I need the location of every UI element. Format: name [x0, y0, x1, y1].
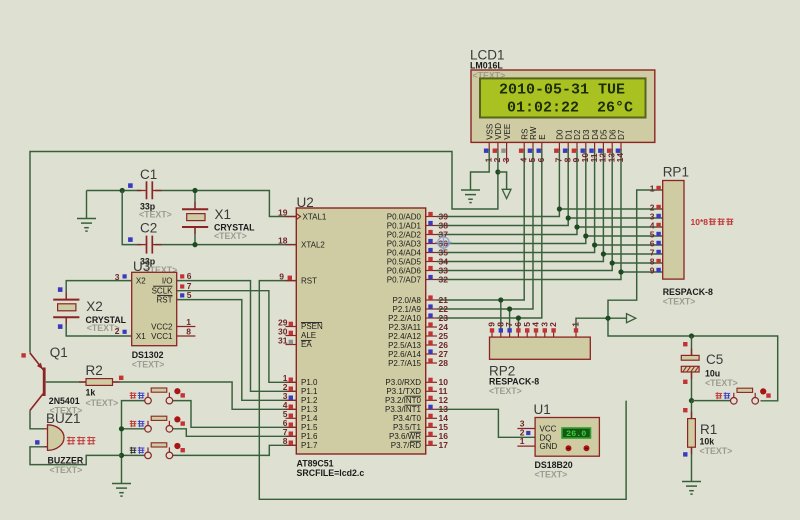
- svg-text:P3.7/RD: P3.7/RD: [391, 441, 421, 450]
- svg-text:<TEXT>: <TEXT>: [86, 398, 119, 408]
- pin U2 1 P1.0: [286, 381, 297, 383]
- svg-text:P1.7: P1.7: [301, 441, 318, 450]
- pin RP2 5: [526, 331, 528, 337]
- wire C1 left to ground branch: [87, 190, 142, 192]
- svg-text:U3: U3: [133, 259, 150, 274]
- wire U3 I/O to U2 P1.1: [177, 281, 297, 392]
- svg-text:D0: D0: [556, 129, 565, 140]
- svg-text:SRCFILE=lcd2.c: SRCFILE=lcd2.c: [297, 468, 365, 478]
- svg-text:P2.7/A15: P2.7/A15: [388, 359, 421, 368]
- wire button left rail to ground: [122, 401, 145, 484]
- wire D5 net: LCD pin12 / U2 P0.5 / RP1 pin7: [437, 149, 663, 262]
- pin LCD 14: [620, 142, 622, 150]
- svg-text:P2.0/A8: P2.0/A8: [393, 296, 422, 305]
- pin LCD 13: [611, 142, 613, 150]
- svg-text:<TEXT>: <TEXT>: [700, 446, 733, 456]
- wire VCC branch to power arrow: [608, 317, 627, 319]
- svg-text:I/O: I/O: [162, 277, 173, 286]
- svg-text:RW: RW: [529, 126, 538, 140]
- capacitor C5 electrolytic: [691, 349, 693, 356]
- node RP2 pin7 junction: [507, 306, 512, 311]
- pin U2 22 P2.1: [426, 308, 437, 310]
- state square U3 pin5: [180, 293, 184, 297]
- svg-text:<TEXT>: <TEXT>: [663, 297, 696, 307]
- transistor Q1 2N5401: [30, 353, 44, 411]
- wire VCC net: RP1 pin1, RP2 pin1, C5, reset button, power arrow: [608, 190, 778, 401]
- svg-text:<TEXT>: <TEXT>: [489, 386, 522, 396]
- wire U3 RST to U2 P1.2: [177, 300, 297, 401]
- pin U2 28 P2.7: [426, 362, 437, 364]
- svg-text:P3.2/INT0: P3.2/INT0: [385, 396, 422, 405]
- wire D2 net: LCD pin9 / U2 P0.2 / RP1 pin4: [437, 149, 663, 235]
- svg-text:P2.3/A11: P2.3/A11: [389, 323, 422, 332]
- capacitor C2: [137, 236, 162, 254]
- pin U2 7 P1.6: [286, 435, 297, 437]
- pin LCD 4: [523, 142, 525, 150]
- svg-text:1k: 1k: [86, 387, 96, 397]
- node RP2 pin8 junction: [498, 297, 503, 302]
- pin U2 25 P2.4: [426, 335, 437, 337]
- wire U3 X2 pin to crystal X2 top: [66, 281, 132, 300]
- svg-text:P0.2/AD2: P0.2/AD2: [387, 230, 422, 239]
- power terminal arrow right (VCC): [627, 314, 636, 323]
- pin U2 3 P1.2: [286, 399, 297, 401]
- wire C5 stems: [691, 336, 693, 401]
- pin U1 1 GND: [517, 445, 535, 447]
- pin RP2 9: [491, 331, 493, 337]
- wire XTAL1 net: C1 right plate to U2 XTAL1: [155, 191, 296, 217]
- svg-text:VDD: VDD: [494, 123, 503, 140]
- svg-text:P0.5/AD5: P0.5/AD5: [387, 257, 422, 266]
- pin LCD 2: [497, 142, 499, 150]
- pin U2 27 P2.6: [426, 353, 437, 355]
- svg-text:C2: C2: [140, 221, 157, 236]
- pin U2 10 P3.0: [426, 381, 437, 383]
- wire U3 X1 pin to crystal X2 bottom: [66, 317, 132, 336]
- svg-text:<TEXT>: <TEXT>: [705, 378, 738, 388]
- svg-text:P1.1: P1.1: [301, 387, 318, 396]
- state square X2 top: [58, 287, 63, 292]
- wire VEE branch: junction to terminal arrow: [498, 172, 507, 189]
- wire RP2 pin8 stub: [500, 300, 502, 329]
- svg-text:28: 28: [439, 358, 449, 368]
- svg-text:P2.4/A12: P2.4/A12: [388, 332, 421, 341]
- push button SW3 (down): [130, 443, 185, 459]
- node D1 junction: [566, 215, 571, 220]
- state square C2: [128, 237, 133, 242]
- svg-text:RST: RST: [301, 276, 317, 285]
- node D7 junction: [618, 269, 623, 274]
- svg-text:EA: EA: [301, 340, 312, 349]
- wire button1 to U2 P1.5: [173, 401, 297, 428]
- pin LCD 12: [602, 142, 604, 150]
- ground (LCD VSS): [461, 190, 480, 203]
- state square U3 pin6: [180, 274, 184, 278]
- pin U2 6 P1.5: [286, 426, 297, 428]
- svg-text:6: 6: [536, 157, 546, 162]
- pin U2 33 P0.6: [426, 270, 437, 272]
- state square X2 bottom: [58, 324, 63, 329]
- lcd LCD1 LM016L body: [471, 70, 655, 142]
- svg-text:R2: R2: [86, 363, 103, 378]
- state square R1 bottom: [683, 452, 687, 456]
- svg-text:14: 14: [615, 153, 625, 163]
- svg-text:P2.2/A10: P2.2/A10: [388, 314, 421, 323]
- pin LCD 5: [532, 142, 534, 150]
- svg-text:C1: C1: [140, 167, 157, 182]
- pin U2 26 P2.5: [426, 344, 437, 346]
- svg-text:9: 9: [279, 271, 284, 281]
- pin U2 35 P0.4: [426, 252, 437, 254]
- svg-text:P1.6: P1.6: [301, 432, 318, 441]
- svg-text:P1.0: P1.0: [301, 378, 318, 387]
- wire D4 net: LCD pin11 / U2 P0.4 / RP1 pin6: [437, 149, 663, 253]
- pin U2 30 ALE: [286, 335, 297, 337]
- pin LCD 6: [541, 142, 543, 150]
- pin U2 31 EA: [286, 344, 297, 346]
- pin U2 2 P1.1: [286, 390, 297, 392]
- wire reset node to reset button left: [692, 400, 731, 402]
- wire LCD RS column to U2 P2.0 / RP2 pin8: [437, 149, 524, 300]
- indicator dot U1 right: [584, 445, 590, 451]
- pin RP2 2: [553, 331, 555, 337]
- resistor R2: [79, 381, 86, 383]
- wire C2 left branch: [122, 191, 141, 245]
- svg-text:XTAL1: XTAL1: [303, 212, 327, 221]
- pin U2 21 P2.0: [426, 299, 437, 301]
- chip U3 DS1302 body: [132, 272, 177, 345]
- svg-text:C5: C5: [706, 352, 723, 367]
- svg-text:BUZ1: BUZ1: [46, 411, 81, 426]
- svg-text:LM016L: LM016L: [470, 61, 503, 71]
- pin U2 9 RST: [286, 280, 297, 282]
- svg-text:<TEXT>: <TEXT>: [139, 210, 172, 220]
- wire D6 net: LCD pin13 / U2 P0.6 / RP1 pin8: [437, 149, 663, 271]
- pin LCD 9: [576, 142, 578, 150]
- svg-text:10u: 10u: [705, 368, 720, 378]
- node D5 junction: [601, 251, 606, 256]
- svg-text:19: 19: [278, 207, 288, 217]
- state square R2 right: [119, 376, 123, 380]
- svg-text:17: 17: [439, 440, 449, 450]
- node RP2 pin6 junction: [516, 315, 521, 320]
- wire button3 row to U2 P1.7: [173, 445, 297, 455]
- svg-text:1: 1: [186, 317, 191, 327]
- pin U2 19 XTAL1: [286, 216, 297, 218]
- pin U2 32 P0.7: [426, 279, 437, 281]
- capacitor C1: [137, 181, 162, 199]
- svg-text:P3.5/T1: P3.5/T1: [393, 423, 422, 432]
- wire XTAL2 net: C2 right plate to U2 XTAL2: [155, 244, 296, 246]
- svg-text:31: 31: [278, 335, 288, 345]
- svg-text:X1: X1: [136, 332, 146, 341]
- wire X1 crystal stems: [194, 191, 196, 245]
- pin U2 18 XTAL2: [286, 244, 297, 246]
- svg-text:Q1: Q1: [50, 345, 68, 360]
- state square C1: [128, 183, 133, 188]
- svg-text:R1: R1: [700, 422, 717, 437]
- svg-text:<TEXT>: <TEXT>: [535, 470, 568, 480]
- push button SW1 (set): [130, 388, 185, 404]
- pin U2 4 P1.3: [286, 408, 297, 410]
- svg-text:VSS: VSS: [485, 124, 494, 140]
- svg-text:VCC2: VCC2: [151, 323, 173, 332]
- pin RP2 7: [509, 331, 511, 337]
- lcd screen: [480, 78, 646, 117]
- svg-text:8: 8: [283, 436, 288, 446]
- clock chevron XTAL1: [296, 213, 300, 219]
- svg-text:AT89C51: AT89C51: [297, 459, 334, 469]
- svg-text:5: 5: [187, 290, 192, 300]
- wire R1 stems and ground: [691, 401, 693, 482]
- wire D1 net: LCD pin8 / U2 P0.1 / RP1 pin3: [437, 149, 663, 226]
- buzzer BUZ1: [48, 425, 65, 451]
- pin stub U3 VCC1 (8): [177, 335, 196, 337]
- svg-text:26.0: 26.0: [566, 429, 586, 439]
- state square U3 pin7: [180, 284, 184, 288]
- pin U2 13 P3.3: [426, 408, 437, 410]
- svg-text:U1: U1: [534, 402, 551, 417]
- pin LCD 8: [567, 142, 569, 150]
- node C1/C2 ground junction: [120, 188, 125, 193]
- svg-text:ALE: ALE: [301, 331, 316, 340]
- svg-text:P3.1/TXD: P3.1/TXD: [386, 387, 421, 396]
- pin U2 14 P3.4: [426, 417, 437, 419]
- wire button2 left stub: [122, 428, 145, 430]
- wire VSS net: LCD pin1 to ground: [471, 149, 490, 190]
- power terminal arrow down (VEE): [502, 189, 511, 198]
- svg-text:RS: RS: [520, 129, 529, 140]
- chip U2 AT89C51 body: [296, 208, 425, 454]
- wire button2 to U2 P1.6: [173, 429, 297, 437]
- svg-text:P2.5/A13: P2.5/A13: [388, 341, 421, 350]
- svg-text:10*8: 10*8: [691, 217, 709, 227]
- node D3 junction: [583, 233, 588, 238]
- pin RP2 1: [575, 331, 577, 337]
- state square BUZ1: [35, 440, 39, 444]
- svg-text:GND: GND: [540, 442, 558, 451]
- svg-text:VCC1: VCC1: [151, 332, 173, 341]
- pin RP2 4: [535, 331, 537, 337]
- svg-text:D4: D4: [591, 129, 600, 140]
- cursor crosshair artifact: [435, 234, 452, 251]
- pin LCD 1: [488, 142, 490, 150]
- wire Q1 base to R2 left: [46, 381, 86, 383]
- svg-text:10k: 10k: [700, 436, 715, 446]
- pin U2 34 P0.5: [426, 261, 437, 263]
- svg-text:P0.1/AD1: P0.1/AD1: [387, 221, 422, 230]
- state square R1 top: [683, 408, 687, 412]
- pin U2 8 P1.7: [286, 444, 297, 446]
- pin LCD 3: [506, 142, 508, 163]
- svg-text:D6: D6: [608, 129, 617, 140]
- svg-text:PSEN: PSEN: [301, 322, 323, 331]
- svg-text:P1.5: P1.5: [301, 423, 318, 432]
- svg-text:P1.3: P1.3: [301, 405, 318, 414]
- node D0 junction: [557, 206, 562, 211]
- svg-text:P0.4/AD4: P0.4/AD4: [387, 248, 422, 257]
- respack RP1 body: [663, 181, 684, 280]
- svg-text:P0.7/AD7: P0.7/AD7: [387, 275, 422, 284]
- pin U2 36 P0.3: [426, 243, 437, 245]
- wire RP2 pin6 stub: [517, 318, 519, 329]
- svg-text:<TEXT>: <TEXT>: [214, 231, 247, 241]
- pin RP2 8: [500, 331, 502, 337]
- pin U2 17 P3.7: [426, 444, 437, 446]
- svg-text:XTAL2: XTAL2: [301, 240, 325, 249]
- pin RP2 3: [544, 331, 546, 337]
- ground (button rail): [112, 484, 131, 497]
- svg-text:RESPACK-8: RESPACK-8: [489, 377, 539, 387]
- crystal X1: [194, 202, 196, 209]
- svg-text:P3.6/WR: P3.6/WR: [389, 432, 421, 441]
- svg-text:8: 8: [186, 327, 191, 337]
- resistor R1: [691, 412, 693, 419]
- svg-text:RESPACK-8: RESPACK-8: [663, 287, 713, 297]
- wire D7 net: LCD pin14 / U2 P0.7 / RP1 pin9: [437, 149, 663, 280]
- svg-text:P2.6/A14: P2.6/A14: [388, 350, 421, 359]
- svg-text:E: E: [538, 134, 547, 139]
- pin U2 29 PSEN: [286, 326, 297, 328]
- wire D0 net: LCD pin7 / U2 P0.0 / RP1 pin2: [437, 149, 663, 217]
- wire LCD E column to U2 P2.2 / RP2 pin6: [437, 149, 542, 318]
- node X1 bottom junction: [192, 242, 197, 247]
- svg-text:D3: D3: [582, 129, 591, 140]
- pin U2 39 P0.0: [426, 216, 437, 218]
- svg-text:P1.4: P1.4: [301, 414, 318, 423]
- state square C5 top: [683, 342, 687, 346]
- svg-text:P2.1/A9: P2.1/A9: [393, 305, 422, 314]
- svg-text:2N5401: 2N5401: [49, 396, 80, 406]
- state square U3 pin2: [123, 330, 127, 334]
- svg-text:6: 6: [187, 271, 192, 281]
- push button SW2 (up): [130, 416, 185, 432]
- wire R2 right to U2 P1.3: [113, 382, 297, 409]
- svg-text:VEE: VEE: [503, 124, 512, 140]
- svg-text:U2: U2: [297, 195, 314, 210]
- svg-text:01:02:22 26°C: 01:02:22 26°C: [507, 100, 633, 117]
- chip U1 DS18B20 body: [535, 418, 599, 457]
- pin U2 37 P0.2: [426, 234, 437, 236]
- wire U2 RST net: pin9 left, down, across bottom, up to reset node: [259, 281, 626, 500]
- ground (crystal C1): [86, 191, 88, 219]
- svg-text:DQ: DQ: [540, 433, 552, 442]
- pin U2 11 P3.1: [426, 390, 437, 392]
- pin RP2 6: [517, 331, 519, 337]
- ground (R1): [682, 482, 701, 495]
- wire buzzer bottom pin loop to button rail: [30, 447, 122, 465]
- state square Q1 emitter: [21, 353, 25, 357]
- svg-text:VCC: VCC: [540, 424, 557, 433]
- pin LCD 7: [558, 142, 560, 150]
- node D6 junction: [610, 260, 615, 265]
- pin LCD 11: [594, 142, 596, 150]
- svg-text:X1: X1: [215, 207, 232, 222]
- push button reset: [716, 388, 771, 404]
- pin LCD 10: [585, 142, 587, 150]
- svg-text:<TEXT>: <TEXT>: [50, 465, 83, 475]
- svg-text:P3.3/INT1: P3.3/INT1: [385, 405, 422, 414]
- svg-text:P0.3/AD3: P0.3/AD3: [387, 239, 422, 248]
- pin U2 5 P1.4: [286, 417, 297, 419]
- node reset node junction: [689, 398, 694, 403]
- svg-text:P1.2: P1.2: [301, 396, 318, 405]
- node D4 junction: [592, 242, 597, 247]
- svg-text:X2: X2: [86, 299, 103, 314]
- svg-text:9: 9: [650, 266, 655, 276]
- indicator dot U1 left: [566, 445, 572, 451]
- wire RP2 pin7 stub: [509, 309, 511, 329]
- label buzzer chinese 蜂鸣器: [67, 437, 75, 445]
- temperature display 26.0: [562, 428, 591, 438]
- svg-text:D5: D5: [600, 129, 609, 140]
- wire buzzer top pin from Q1 collector: [30, 411, 44, 429]
- pin U2 38 P0.1: [426, 225, 437, 227]
- svg-text:1: 1: [571, 322, 581, 327]
- svg-text:32: 32: [439, 274, 449, 284]
- wire U2 P3.3 to U1 DQ: [437, 409, 535, 437]
- pin U2 15 P3.5: [426, 426, 437, 428]
- pin U2 23 P2.2: [426, 317, 437, 319]
- wire VDD net: LCD pin2 down, left to frame, down left edge to Q1 emitter: [30, 149, 498, 353]
- respack RP2 body: [490, 337, 591, 359]
- svg-text:P3.4/T0: P3.4/T0: [393, 414, 422, 423]
- node rail-button2 junction: [119, 426, 124, 431]
- svg-text:2: 2: [548, 322, 558, 327]
- state square U3 pin3: [123, 274, 127, 278]
- wire button3 left stub: [122, 454, 145, 456]
- svg-text:<TEXT>: <TEXT>: [132, 360, 165, 370]
- pin U2 12 P3.2: [426, 399, 437, 401]
- svg-text:P0.6/AD6: P0.6/AD6: [387, 266, 422, 275]
- wire U3 SCLK to U2 P1.0: [177, 291, 297, 383]
- svg-text:RP1: RP1: [663, 164, 689, 179]
- svg-text:P3.0/RXD: P3.0/RXD: [385, 378, 421, 387]
- pin U2 24 P2.3: [426, 326, 437, 328]
- svg-text:2010-05-31 TUE: 2010-05-31 TUE: [499, 82, 625, 99]
- pin U1 3 VCC: [517, 428, 535, 430]
- node VCC junction at arrow: [605, 316, 610, 321]
- svg-text:1: 1: [520, 436, 525, 446]
- svg-text:3: 3: [501, 157, 511, 162]
- wire LCD RW column to U2 P2.1 / RP2 pin7: [437, 149, 533, 309]
- svg-text:D2: D2: [573, 129, 582, 140]
- svg-text:18: 18: [278, 235, 288, 245]
- svg-text:3: 3: [115, 272, 120, 282]
- pin U2 16 P3.6: [426, 435, 437, 437]
- wire D3 net: LCD pin10 / U2 P0.3 / RP1 pin5: [437, 149, 663, 244]
- crystal X2: [65, 293, 67, 300]
- state square C5 bottom: [683, 380, 687, 384]
- node C5 top junction: [689, 333, 694, 338]
- svg-text:P0.0/AD0: P0.0/AD0: [387, 212, 422, 221]
- node D2 junction: [574, 224, 579, 229]
- svg-text:D7: D7: [617, 129, 626, 140]
- node VDD junction at LCD pin2: [495, 169, 500, 174]
- svg-text:X2: X2: [136, 277, 146, 286]
- svg-text:RST: RST: [157, 296, 173, 305]
- svg-text:2: 2: [115, 326, 120, 336]
- node rail-button3 junction: [119, 453, 124, 458]
- svg-text:SCLK: SCLK: [152, 287, 174, 296]
- pin stub U3 VCC2 (1): [177, 326, 196, 328]
- wire VCC branch to RP2 pin1: [576, 318, 608, 329]
- svg-text:D1: D1: [564, 129, 573, 140]
- node X1 top junction: [192, 188, 197, 193]
- svg-text:1: 1: [650, 184, 655, 194]
